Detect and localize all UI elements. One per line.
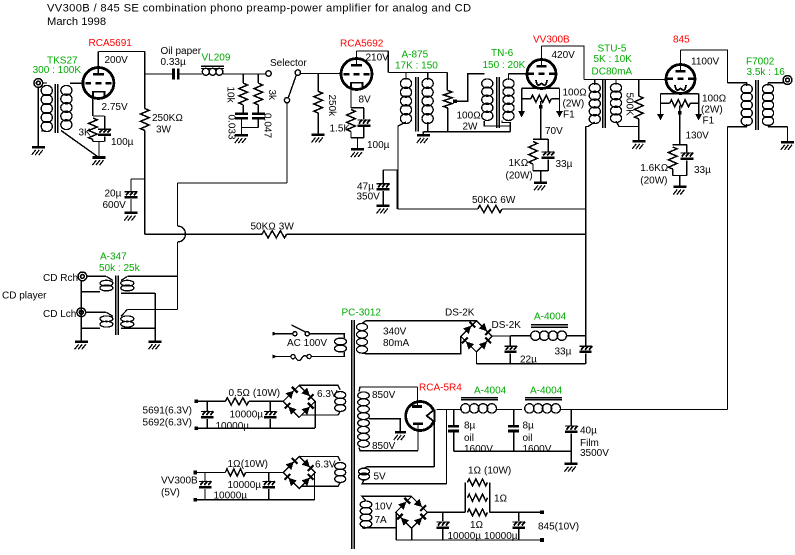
ground (A-875 secondary) xyxy=(417,134,430,137)
svg-text:2.75V: 2.75V xyxy=(102,102,128,113)
wire 10000u-2b top lead xyxy=(268,473,270,481)
svg-text:3.5k : 16: 3.5k : 16 xyxy=(747,67,786,78)
svg-text:oil: oil xyxy=(464,433,474,444)
node VV300B RC top bar xyxy=(533,138,548,140)
capacitor 0.033 xyxy=(235,112,248,115)
wire selector pole to grid xyxy=(301,73,342,75)
wire 10V bridge minus down xyxy=(411,528,413,540)
svg-text:1Ω: 1Ω xyxy=(494,494,507,505)
wire 40u top lead xyxy=(570,410,572,426)
wire selector C down xyxy=(286,103,288,183)
ground (CD input) xyxy=(75,340,88,343)
rectifier bridge (10V) xyxy=(396,497,428,529)
capacitor 100u (RCA5692 cathode) xyxy=(357,119,370,121)
resistor 500K xyxy=(635,96,644,119)
wire 47u bottom lead xyxy=(382,191,384,205)
wire 0.047 down xyxy=(257,119,259,127)
terminal 6.3V-1 + xyxy=(195,400,199,404)
ground (20u cap) xyxy=(125,212,138,215)
inductor VL209 core xyxy=(201,65,224,67)
wire STU-5 secondary bottom xyxy=(616,121,639,127)
wire 6.3V-2 top rail b xyxy=(246,472,284,474)
wire hop over B+ rail xyxy=(178,226,186,242)
resistor 10k xyxy=(239,83,248,105)
wire hum wiper down xyxy=(540,101,542,139)
svg-text:5V: 5V xyxy=(374,472,387,483)
svg-text:1100V: 1100V xyxy=(691,57,720,68)
transformer STU-5 core xyxy=(602,80,604,128)
tube RCA5692 xyxy=(341,59,372,90)
wire choke b out to 845 B+ xyxy=(561,409,728,411)
wire TKS27 secondary to grid xyxy=(70,82,84,84)
wire VV300B cathode ground lead xyxy=(540,171,542,182)
svg-text:1KΩ: 1KΩ xyxy=(509,158,529,169)
svg-text:DC80mA: DC80mA xyxy=(592,67,633,78)
svg-text:340V: 340V xyxy=(383,327,407,338)
capacitor 100u (RCA5691 cathode) xyxy=(98,128,111,130)
wire choke a out xyxy=(497,409,523,411)
wire 40u bottom lead xyxy=(570,433,572,462)
jack CD Lch xyxy=(77,308,86,317)
svg-text:50KΩ 3W: 50KΩ 3W xyxy=(251,222,295,233)
capacitor 33u (VV300B cathode) xyxy=(542,151,555,153)
transformer F7002 secondary xyxy=(762,84,773,93)
node hum wiper junction (845) xyxy=(678,111,682,115)
svg-text:0.33µ: 0.33µ xyxy=(161,57,186,68)
wire 33u top lead (845) xyxy=(686,145,688,153)
fuse contact 1 xyxy=(291,355,295,359)
wire 100u top lead xyxy=(363,108,365,119)
node pot wiper dot xyxy=(453,100,457,104)
svg-text:100µ: 100µ xyxy=(367,140,390,151)
ground (850V center tap) xyxy=(395,431,406,434)
transformer TN-6 primary xyxy=(482,79,493,88)
svg-text:500K: 500K xyxy=(624,93,635,117)
wire 5R4 bottom plate lead xyxy=(417,425,419,451)
wire cap 100u bottom lead xyxy=(104,136,106,141)
svg-text:1.5K: 1.5K xyxy=(330,124,351,135)
wire 10000u-b bottom lead xyxy=(518,529,520,540)
wire A-875 primary bottom xyxy=(398,122,406,209)
wire 3k to 0.047 xyxy=(257,105,259,113)
svg-text:CD Rch: CD Rch xyxy=(43,273,78,284)
svg-text:10V: 10V xyxy=(375,502,393,513)
choke A-4004 (PSU2 b) xyxy=(525,404,534,413)
input jack J1 xyxy=(34,79,43,88)
arrow F1 left (VV300B) xyxy=(518,111,525,118)
tube RCA-5R4 body xyxy=(406,402,435,431)
wire 6.3V-1 AC top xyxy=(299,385,340,390)
transformer STU-5 primary xyxy=(589,83,600,92)
svg-text:300 : 100K: 300 : 100K xyxy=(33,65,82,76)
wire 5V return junction xyxy=(446,410,448,484)
svg-text:(20W): (20W) xyxy=(506,171,533,182)
svg-text:250KΩ: 250KΩ xyxy=(152,113,183,124)
resistor 3k xyxy=(254,83,263,105)
terminal 6.3V-1 - xyxy=(195,426,199,430)
wire CD/sel rail right xyxy=(287,233,586,235)
capacitor 47u 350V xyxy=(377,183,390,185)
wire bridge output right xyxy=(492,335,510,337)
wire to choke xyxy=(510,335,531,337)
ground (input jack) xyxy=(32,146,45,149)
wire STU-5 top rail xyxy=(584,79,666,81)
wire RCA5692 plate top xyxy=(357,50,389,52)
selector contact C xyxy=(284,98,289,103)
wire 20u top lead xyxy=(130,179,132,191)
wire 6.3V-1 bridge minus xyxy=(314,401,316,428)
svg-text:F7002: F7002 xyxy=(746,57,775,68)
wire CD bus lower xyxy=(177,242,179,310)
wire bridge left corner down xyxy=(460,336,462,353)
node 5692 RC top bar xyxy=(351,107,364,109)
wire AC top to primary xyxy=(309,334,344,338)
wire 0.047 to 0.033 ground xyxy=(242,127,259,129)
ground (40u) xyxy=(565,463,578,466)
potentiometer hum 100ohm 845 xyxy=(670,100,691,107)
wire primary1 bottom xyxy=(81,291,100,293)
capacitor 8u oil 1600V (2) xyxy=(508,425,519,428)
svg-text:1Ω (10W): 1Ω (10W) xyxy=(468,466,511,477)
resistor 1ohm (mid) xyxy=(468,494,488,501)
svg-text:420V: 420V xyxy=(552,50,576,61)
transformer A-347 core xyxy=(115,276,117,336)
resistor 0.5ohm 10W xyxy=(225,398,249,405)
ground (RCA5691 cathode) xyxy=(93,156,106,159)
svg-text:CD player: CD player xyxy=(2,291,47,302)
wire 500K top lead xyxy=(638,80,640,97)
wire 10V bridge out xyxy=(427,511,465,513)
svg-text:F1: F1 xyxy=(703,116,715,127)
svg-text:A-875: A-875 xyxy=(402,50,429,61)
svg-text:0.5Ω (10W): 0.5Ω (10W) xyxy=(229,388,281,399)
wire STU-5 secondary top stub xyxy=(615,80,617,86)
svg-text:50k : 25k: 50k : 25k xyxy=(99,263,141,274)
wire secondary1 bottom xyxy=(121,292,155,294)
transformer A-875 core xyxy=(415,77,417,132)
wire 845 hum lead left xyxy=(661,102,670,104)
wire 1K bottom xyxy=(532,164,534,171)
svg-text:VV300B / 845 SE combination ph: VV300B / 845 SE combination phono preamp… xyxy=(47,3,471,15)
ground (RCA5692 cathode) xyxy=(351,148,364,151)
wire 845 filament rail xyxy=(661,93,699,95)
svg-text:3W: 3W xyxy=(156,125,172,136)
wire A-875 ground stub xyxy=(422,132,424,134)
wire PSU2 0V rail xyxy=(454,450,572,452)
svg-text:250k: 250k xyxy=(326,95,337,118)
wire 10V bottom lead xyxy=(362,527,396,530)
wire 845 plate to F7002 xyxy=(681,50,728,83)
tube RCA-5R4 notch xyxy=(427,408,438,423)
capacitor 10000u (845 a) xyxy=(436,521,449,523)
wire 10000u-1b top lead xyxy=(269,401,271,410)
selector contact A xyxy=(266,71,271,76)
AC input arrow top xyxy=(273,332,278,336)
resistor 250Kohm 3W xyxy=(141,109,150,131)
svg-text:850V: 850V xyxy=(372,390,396,401)
wire 850V center tap xyxy=(369,419,400,431)
wire 10000u-1a bottom lead xyxy=(206,419,208,428)
wire 0.033 to ground xyxy=(241,119,243,134)
ground (500K) xyxy=(632,140,645,143)
tube 5R4 plate bottom xyxy=(413,422,423,425)
capacitor 33u (PSU1) xyxy=(580,345,592,347)
wire 850V top lead xyxy=(359,387,418,392)
wire pot wiper xyxy=(455,74,485,102)
wire 5V top lead xyxy=(364,467,434,469)
transformer PC-3012 850V winding xyxy=(358,392,370,399)
wire 33u bottom lead (PSU1) xyxy=(585,354,587,364)
wire B+ bus vertical xyxy=(585,127,587,336)
svg-text:6.3V: 6.3V xyxy=(315,460,336,471)
wire AC bottom xyxy=(277,356,291,358)
wire 6.3V-2 bottom rail xyxy=(195,499,314,501)
svg-text:10k: 10k xyxy=(225,87,236,104)
svg-text:March 1998: March 1998 xyxy=(47,16,106,28)
svg-text:8µ: 8µ xyxy=(464,421,476,432)
wire VV300B filament rail xyxy=(522,87,560,89)
wire 850V bottom lead xyxy=(359,448,418,451)
wire 10000u-2b bottom lead xyxy=(268,489,270,500)
choke A-4004 (PSU1) xyxy=(531,331,540,340)
transformer A-347 primary 1 xyxy=(100,280,113,286)
terminal 6.3V-2 + xyxy=(194,471,198,475)
svg-text:A-4004: A-4004 xyxy=(534,312,567,323)
resistor 1ohm (top) xyxy=(468,479,488,486)
wire secondary2 top xyxy=(127,309,177,311)
transformer A-875 secondary xyxy=(422,78,433,88)
node 845 RC top bar xyxy=(673,144,687,146)
wire 10V top lead xyxy=(362,496,412,500)
svg-text:845: 845 xyxy=(673,35,690,46)
tube 5R4 plate top xyxy=(412,405,422,408)
svg-text:(5V): (5V) xyxy=(161,488,180,499)
wire 5692 cathode ground lead xyxy=(357,138,359,148)
wire 6.3V-2 bridge minus xyxy=(314,473,316,500)
wire 845 B+ vertical xyxy=(727,127,729,410)
wire A-875 secondary top stub xyxy=(427,73,429,81)
wire A-875 B+ vertical xyxy=(396,170,398,209)
switch contact 2 xyxy=(305,332,309,336)
svg-text:20µ: 20µ xyxy=(105,189,122,200)
resistor network box left xyxy=(464,482,466,512)
potentiometer hum 100ohm VV300B xyxy=(531,95,552,102)
wire 6.3V-1 top rail b xyxy=(249,400,283,402)
wire 340V bottom xyxy=(362,352,462,355)
svg-text:TN-6: TN-6 xyxy=(491,48,514,59)
svg-text:33µ: 33µ xyxy=(555,347,572,358)
choke A-4004 (PSU2 a) xyxy=(461,404,470,413)
svg-text:130V: 130V xyxy=(686,131,710,142)
wire 10V 0V rail xyxy=(396,539,542,541)
wire 33u top lead (VV300B) xyxy=(547,139,549,151)
wire 250K bottom down xyxy=(144,131,146,235)
rectifier bridge (6.3V 1) xyxy=(283,385,315,417)
wire secondary2 bottom xyxy=(121,327,155,329)
wire 845 hum pot right xyxy=(698,94,700,115)
transformer TKS27 core xyxy=(54,84,56,133)
fuse xyxy=(295,356,307,361)
svg-text:RCA5691: RCA5691 xyxy=(89,38,133,49)
wire 6.3V-2 AC bottom xyxy=(301,483,340,487)
wire 250k bottom xyxy=(317,113,319,134)
AC input arrow bottom xyxy=(273,355,278,359)
svg-text:1.6KΩ: 1.6KΩ xyxy=(640,163,668,174)
wire 250k top xyxy=(317,74,319,92)
wire A-875 primary top stub xyxy=(405,73,407,81)
wire 10000u-b top lead xyxy=(518,512,520,521)
wire 845 cathode ground lead xyxy=(679,176,681,186)
svg-text:8V: 8V xyxy=(359,95,372,106)
svg-text:50KΩ 6W: 50KΩ 6W xyxy=(472,195,516,206)
capacitor 10000u (1a) xyxy=(201,411,214,413)
transformer TKS27 primary xyxy=(41,85,52,95)
svg-text:VV300B: VV300B xyxy=(533,35,570,46)
wire to oil paper cap xyxy=(145,73,172,75)
wire TN-6 secondary bottom xyxy=(502,121,510,132)
capacitor 0.33u oil paper xyxy=(172,69,175,80)
wire pot top lead xyxy=(446,73,448,91)
wire RCA5691 plate top rail xyxy=(98,51,144,53)
transformer A-347 secondary 1 xyxy=(121,280,134,286)
wire 6.3V-2 top rail a xyxy=(195,472,225,474)
wire cathode to ground xyxy=(98,142,100,157)
svg-text:70V: 70V xyxy=(545,126,563,137)
resistor 250k xyxy=(314,91,323,113)
wire 845 hum lead right xyxy=(690,102,698,104)
wire F7002 primary top xyxy=(728,82,748,84)
transformer TN-6 core xyxy=(496,77,498,128)
ground (47u) xyxy=(377,205,390,208)
wire RCA5691 plate up xyxy=(97,52,99,74)
svg-text:2W: 2W xyxy=(463,122,479,133)
wire 845 hum wiper down xyxy=(679,106,681,145)
ground (VV300B cathode) xyxy=(534,181,547,184)
capacitor 8u oil 1600V (1) xyxy=(448,425,459,428)
tube 845 xyxy=(666,65,695,94)
resistor network box right xyxy=(489,482,491,512)
fuse contact 2 xyxy=(307,354,311,358)
wire F7002 secondary bottom xyxy=(767,124,769,127)
terminal 845 filament + xyxy=(540,511,544,515)
transformer STU-5 secondary xyxy=(610,83,621,92)
wire 5V return vertical xyxy=(433,422,435,467)
wire oil cap to VL209 xyxy=(179,73,202,75)
choke A-4004 (PSU2 a) core xyxy=(461,397,498,399)
capacitor 22u xyxy=(504,345,516,347)
svg-text:1600V: 1600V xyxy=(464,444,493,455)
potentiometer 100ohm 2W xyxy=(444,91,453,109)
transformer PC-3012 340V winding xyxy=(357,323,368,330)
wire hum pot left xyxy=(521,88,523,112)
wire plate junction down xyxy=(144,52,146,109)
wire Lch to primary xyxy=(86,311,106,313)
wire secondary ground bus xyxy=(154,293,156,340)
svg-text:(20W): (20W) xyxy=(640,176,667,187)
wire network out xyxy=(490,511,542,513)
wire 10000u-2a bottom lead xyxy=(204,489,206,500)
output jack xyxy=(783,76,792,85)
wire 1.6K bottom xyxy=(672,169,674,176)
transformer F7002 core xyxy=(755,80,757,130)
svg-text:oil: oil xyxy=(523,433,533,444)
svg-text:600V: 600V xyxy=(103,200,127,211)
ground (0.033/0.047) xyxy=(235,134,248,137)
wire pot bottom lead xyxy=(447,108,449,132)
tube RCA5691 xyxy=(83,68,114,99)
resistor 50Kohm 3W xyxy=(262,231,287,238)
arrow F1 right (845) xyxy=(695,114,702,121)
wire preamp ground rail xyxy=(423,131,510,133)
wire TN-6 primary bottom xyxy=(484,121,510,126)
svg-text:5K : 10K: 5K : 10K xyxy=(594,54,633,65)
wire selector to CD bus xyxy=(178,182,288,184)
node cathode RC bottom bar xyxy=(93,141,105,143)
svg-text:40µ: 40µ xyxy=(580,426,597,437)
wire 10000u-1a top lead xyxy=(206,401,208,410)
ground (output) xyxy=(781,141,794,144)
svg-text:3500V: 3500V xyxy=(580,448,609,459)
svg-text:3k: 3k xyxy=(266,90,277,102)
wire 100u bottom lead xyxy=(363,127,365,138)
wire VV300B plate to STU-5 xyxy=(542,46,585,80)
wire 3k top lead xyxy=(257,74,259,84)
terminal 6.3V-2 - xyxy=(194,498,198,502)
wire 5R4 top plate lead xyxy=(417,387,419,406)
transformer PC-3012 primary xyxy=(335,338,347,345)
svg-text:CD Lch: CD Lch xyxy=(43,309,76,320)
wire AC bottom to primary xyxy=(311,352,344,357)
svg-text:Selector: Selector xyxy=(270,58,307,69)
wire 8u1 bottom lead xyxy=(453,432,455,451)
wire 6.3V-1 top rail a xyxy=(196,400,225,402)
wire hum pot lead left xyxy=(522,98,531,100)
wire 33u top lead (PSU1) xyxy=(585,336,587,346)
wire 8u1 top lead xyxy=(453,410,455,425)
svg-text:AC 100V: AC 100V xyxy=(287,338,327,349)
wire 340V top xyxy=(362,321,476,324)
wire 5R4 output xyxy=(437,409,461,411)
wire 8u1 junction to choke xyxy=(447,409,463,411)
wire 10000u-a top lead xyxy=(442,512,444,521)
transformer TKS27 secondary xyxy=(61,85,72,95)
wire 845 plate up xyxy=(680,50,682,70)
wire 500K bottom xyxy=(638,119,640,140)
resistor 1.5K xyxy=(347,110,356,132)
wire 10000u-a bottom lead xyxy=(442,529,444,540)
transformer PC-3012 10V winding xyxy=(360,501,372,508)
wire VV300B plate up xyxy=(541,46,543,65)
choke A-4004 (PSU2 b) core xyxy=(525,397,562,399)
wire CD/sel rail left xyxy=(145,233,262,235)
resistor 1.6Kohm 20W xyxy=(668,147,677,169)
svg-text:1600V: 1600V xyxy=(523,444,552,455)
svg-text:1Ω(10W): 1Ω(10W) xyxy=(228,459,268,470)
node cathode RC top bar xyxy=(93,115,105,117)
selector arm xyxy=(288,75,296,98)
wire 33u bottom lead (845) xyxy=(686,160,688,175)
wire 47u stub xyxy=(383,169,397,171)
wire 3K bottom xyxy=(92,140,94,142)
tube VV300B xyxy=(527,60,556,89)
transformer PC-3012 core xyxy=(351,320,353,549)
svg-text:F1: F1 xyxy=(563,110,575,121)
svg-text:100Ω: 100Ω xyxy=(457,111,481,122)
resistor 50Kohm 6W xyxy=(478,205,502,212)
svg-text:RCA-5R4: RCA-5R4 xyxy=(419,383,462,394)
wire 10k to 0.033 xyxy=(242,105,244,113)
svg-text:PC-3012: PC-3012 xyxy=(342,308,382,319)
